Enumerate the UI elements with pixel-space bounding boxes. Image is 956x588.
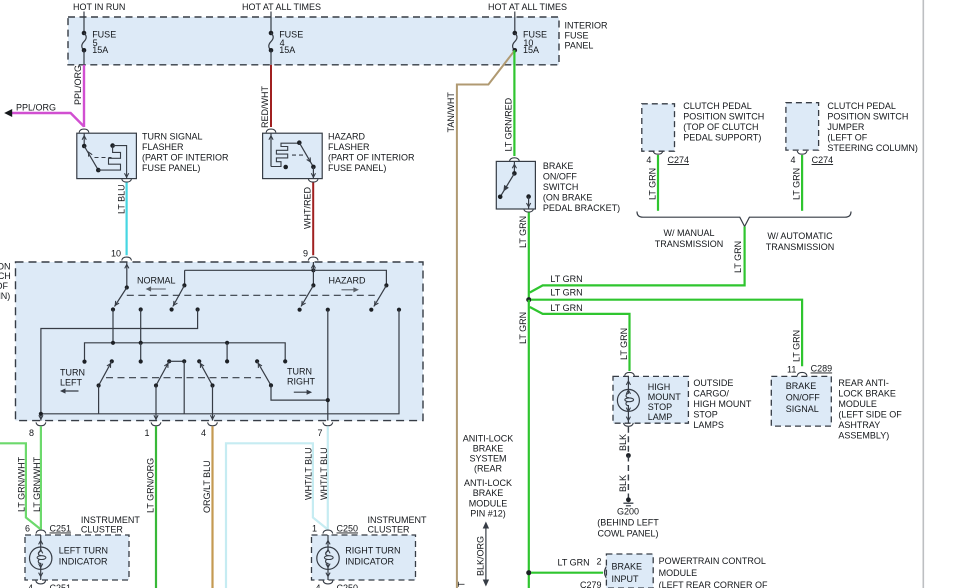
svg-text:LT GRN/WHT: LT GRN/WHT — [17, 456, 27, 512]
svg-text:ON: ON — [0, 262, 11, 272]
svg-text:ASSEMBLY): ASSEMBLY) — [838, 431, 889, 441]
label NORMAL with arrow — [137, 275, 176, 291]
fuse 5 15A — [82, 12, 117, 65]
label INSTRUMENT CLUSTER (left) — [81, 515, 140, 535]
pin 9 — [303, 249, 318, 261]
normal/hazard selector internals — [41, 262, 401, 421]
svg-text:1: 1 — [144, 428, 149, 438]
connector C251 pin 4 (bottom) — [28, 581, 71, 588]
svg-text:BRAKE: BRAKE — [612, 562, 643, 572]
svg-text:LT GRN/RED: LT GRN/RED — [504, 97, 514, 151]
svg-text:LT GRN: LT GRN — [792, 168, 802, 200]
svg-text:BRAKE: BRAKE — [543, 161, 574, 171]
label LT GRN/RED — [504, 97, 514, 151]
wire LT GRN clutch jumper — [801, 155, 803, 211]
svg-text:TRANSMISSION: TRANSMISSION — [766, 242, 835, 252]
connector C250 pin 1 — [312, 524, 358, 534]
label TAN/WHT — [446, 92, 456, 133]
svg-text:INDICATOR: INDICATOR — [345, 557, 394, 567]
label TURN SIGNAL FLASHER — [142, 132, 229, 174]
svg-text:RIGHT TURN: RIGHT TURN — [345, 546, 400, 556]
junction dot pin8 rail — [39, 412, 43, 420]
label TURN LEFT with arrow — [60, 367, 85, 393]
svg-text:ANTI-LOCK: ANTI-LOCK — [464, 478, 512, 488]
svg-text:10: 10 — [111, 249, 121, 259]
left turn indicator — [25, 535, 129, 580]
svg-text:11: 11 — [787, 365, 796, 375]
svg-text:PPL/ORG: PPL/ORG — [73, 65, 83, 105]
ground G200 — [617, 503, 639, 516]
svg-text:CARGO/: CARGO/ — [693, 389, 729, 399]
label HAZARD FLASHER — [328, 132, 415, 174]
svg-text:9: 9 — [303, 249, 308, 259]
svg-text:HOT AT ALL TIMES: HOT AT ALL TIMES — [488, 2, 567, 12]
label RIGHT TURN INDICATOR — [345, 546, 400, 567]
label WHT/LT BLU (branch) — [304, 447, 314, 500]
svg-text:LT GRN: LT GRN — [550, 274, 582, 284]
svg-text:CLUSTER: CLUSTER — [81, 525, 124, 535]
svg-text:JUMPER: JUMPER — [827, 122, 865, 132]
wire LT GRN clutch switch — [657, 155, 659, 211]
turn-right switch blades — [197, 359, 330, 420]
svg-text:LT GRN: LT GRN — [792, 330, 802, 362]
svg-text:LT GRN: LT GRN — [518, 312, 528, 344]
label LT GRN (signal branch) — [550, 288, 801, 362]
label LT GRN (main down) — [518, 312, 528, 344]
svg-text:PANEL: PANEL — [565, 41, 594, 51]
svg-text:HAZARD: HAZARD — [329, 275, 367, 285]
svg-text:8: 8 — [29, 428, 34, 438]
splice LT GRN to PCM — [526, 570, 531, 575]
svg-text:POSITION SWITCH: POSITION SWITCH — [827, 112, 908, 122]
connector C274 pin 4 (jumper) — [791, 151, 834, 165]
mechanical link (lower) — [106, 377, 261, 379]
wire ORG/LT BLU pin 4 — [211, 426, 213, 588]
svg-text:ASHTRAY: ASHTRAY — [838, 420, 880, 430]
hazard flasher — [263, 129, 323, 179]
pin 10 — [111, 249, 132, 261]
svg-text:(LEFT SIDE OF: (LEFT SIDE OF — [838, 410, 902, 420]
svg-text:WHT/LT BLU: WHT/LT BLU — [304, 447, 314, 500]
label ANTI-LOCK BRAKE SYSTEM block — [463, 434, 514, 519]
wire WHT/LT BLU pin 7 to C250 — [327, 426, 329, 529]
svg-text:MODULE: MODULE — [838, 399, 877, 409]
node HOT IN RUN — [73, 2, 125, 12]
label PPL/ORG vertical — [73, 65, 83, 105]
pin 7 — [317, 422, 332, 438]
label fragment T — [457, 581, 467, 587]
svg-text:BLK/ORG: BLK/ORG — [476, 536, 486, 576]
svg-text:W/ AUTOMATIC: W/ AUTOMATIC — [767, 231, 833, 241]
high mount stop lamp — [613, 372, 688, 423]
node HOT AT ALL TIMES (fuse 10) — [488, 2, 567, 12]
svg-text:LT GRN: LT GRN — [558, 558, 590, 568]
svg-text:(LEFT REAR CORNER OF: (LEFT REAR CORNER OF — [659, 580, 768, 588]
svg-text:(REAR: (REAR — [474, 464, 503, 474]
wire LT GRN to brake input — [531, 572, 603, 574]
page edge line — [922, 0, 924, 588]
wire LT GRN/ORG pin 1 — [155, 426, 157, 588]
svg-text:15A: 15A — [279, 45, 295, 55]
fuse 10 15A — [513, 12, 548, 65]
svg-text:POSITION SWITCH: POSITION SWITCH — [683, 112, 764, 122]
svg-text:C251: C251 — [50, 583, 72, 588]
pin 1 — [144, 422, 160, 438]
svg-text:OF: OF — [0, 281, 9, 291]
svg-text:FLASHER: FLASHER — [142, 142, 184, 152]
label WHT/RED — [303, 187, 313, 229]
svg-text:INSTRUMENT: INSTRUMENT — [81, 515, 140, 525]
wire LT GRN bracket to junction — [530, 227, 745, 293]
svg-text:HOT IN RUN: HOT IN RUN — [73, 2, 125, 12]
label LT GRN 2 C279 — [558, 557, 602, 588]
svg-text:LEFT: LEFT — [60, 377, 83, 387]
svg-text:4: 4 — [646, 155, 651, 165]
label W/ AUTOMATIC TRANSMISSION — [766, 231, 835, 252]
svg-text:SYSTEM: SYSTEM — [469, 454, 506, 464]
wire BLK/ORG double arrow — [483, 522, 489, 587]
label W/ MANUAL TRANSMISSION — [655, 228, 724, 249]
wire PPL/ORG from fuse 5 — [4, 65, 84, 127]
svg-text:HIGH: HIGH — [648, 382, 671, 392]
fuse 4 15A — [269, 12, 304, 65]
svg-text:TURN: TURN — [60, 367, 85, 377]
svg-text:G200: G200 — [617, 507, 639, 517]
wire TAN/WHT from fuse 10 — [457, 50, 515, 588]
wire WHT/RED — [308, 179, 318, 256]
svg-text:(TOP OF CLUTCH: (TOP OF CLUTCH — [683, 122, 758, 132]
svg-text:WHT/RED: WHT/RED — [303, 187, 313, 229]
svg-text:FLASHER: FLASHER — [328, 142, 370, 152]
label BLK/ORG — [476, 536, 486, 576]
svg-text:LT GRN/ORG: LT GRN/ORG — [146, 458, 156, 513]
label LT GRN/WHT (pin 8) — [32, 456, 42, 512]
svg-text:FUSE PANEL): FUSE PANEL) — [142, 163, 200, 173]
svg-text:TURN SIGNAL: TURN SIGNAL — [142, 132, 203, 142]
svg-text:LAMP: LAMP — [648, 412, 673, 422]
svg-text:ON/OFF: ON/OFF — [786, 393, 820, 403]
svg-text:RED/WHT: RED/WHT — [260, 86, 270, 128]
svg-text:PIN #12): PIN #12) — [470, 509, 506, 519]
label multifunction switch (clipped) — [0, 262, 11, 302]
svg-text:CLUSTER: CLUSTER — [368, 525, 411, 535]
label LT GRN (lamp branch) — [550, 303, 629, 360]
svg-text:4: 4 — [201, 428, 206, 438]
svg-text:WHT/LT BLU: WHT/LT BLU — [319, 447, 329, 500]
svg-text:C279: C279 — [580, 580, 602, 588]
label BLK (upper) — [618, 434, 628, 451]
label INTERIOR FUSE PANEL — [565, 21, 609, 51]
svg-text:INTERIOR: INTERIOR — [565, 21, 609, 31]
svg-text:COWL PANEL): COWL PANEL) — [597, 529, 658, 539]
svg-text:PPL/ORG: PPL/ORG — [16, 103, 56, 113]
svg-text:TAN/WHT: TAN/WHT — [446, 92, 456, 133]
svg-text:MODULE: MODULE — [469, 499, 508, 509]
svg-text:NORMAL: NORMAL — [137, 275, 176, 285]
label HAZARD with arrow — [329, 275, 367, 292]
svg-text:15A: 15A — [523, 45, 539, 55]
svg-text:W/ MANUAL: W/ MANUAL — [663, 228, 714, 238]
svg-text:LT GRN: LT GRN — [619, 328, 629, 360]
label RED/WHT — [260, 86, 270, 128]
svg-text:BRAKE: BRAKE — [473, 488, 504, 498]
wire LT GRN to brake on/off signal — [531, 300, 802, 367]
svg-text:C250: C250 — [337, 524, 359, 534]
svg-text:C250: C250 — [337, 583, 359, 588]
svg-text:STOP: STOP — [648, 402, 672, 412]
connector C250 pin 4 (bottom) — [315, 581, 358, 588]
svg-text:INSTRUMENT: INSTRUMENT — [368, 515, 427, 525]
svg-text:HIGH MOUNT: HIGH MOUNT — [693, 399, 751, 409]
contact bus and lower contacts — [82, 341, 287, 364]
svg-text:6: 6 — [25, 524, 30, 534]
wire WHT/LT BLU branch — [226, 443, 327, 588]
svg-text:POWERTRAIN CONTROL: POWERTRAIN CONTROL — [659, 556, 766, 566]
svg-text:BRAKE: BRAKE — [786, 381, 817, 391]
label LT BLU — [117, 184, 127, 214]
label POWERTRAIN CONTROL MODULE — [659, 556, 768, 588]
connector C251 pin 6 — [25, 524, 71, 534]
clutch pedal position switch — [642, 104, 675, 151]
svg-text:CH: CH — [0, 271, 11, 281]
svg-text:4: 4 — [791, 155, 796, 165]
svg-text:RIGHT: RIGHT — [287, 376, 316, 386]
label WHT/LT BLU (pin 7) — [319, 447, 329, 500]
pin 4 — [201, 422, 217, 438]
svg-text:BLK: BLK — [618, 434, 628, 451]
svg-text:MN): MN) — [0, 291, 10, 301]
label ORG/LT BLU — [202, 460, 212, 513]
interior fuse panel box — [68, 17, 559, 65]
wire LT GRN brake switch to junction — [524, 209, 534, 300]
label LT GRN (clutch jumper) — [792, 168, 802, 200]
svg-text:BLK: BLK — [618, 475, 628, 492]
svg-text:LEFT TURN: LEFT TURN — [59, 546, 108, 556]
svg-text:(BEHIND LEFT: (BEHIND LEFT — [597, 518, 659, 528]
svg-text:LT GRN: LT GRN — [648, 168, 658, 200]
connector arc C279 — [605, 567, 607, 579]
svg-text:FUSE: FUSE — [565, 31, 589, 41]
label BRAKE ON/OFF SWITCH — [543, 161, 620, 213]
label CLUTCH PEDAL POSITION SWITCH JUMPER — [827, 101, 918, 153]
svg-text:15A: 15A — [92, 45, 108, 55]
label TURN RIGHT with arrow — [287, 366, 316, 395]
connector C274 pin 4 (switch) — [646, 151, 689, 165]
wire LT GRN/WHT pin 8 to C251 — [40, 426, 42, 529]
label PPL/ORG horizontal — [16, 103, 56, 113]
wire LT BLU — [122, 179, 132, 256]
label BEHIND LEFT COWL PANEL — [597, 518, 659, 539]
svg-text:OUTSIDE: OUTSIDE — [693, 378, 733, 388]
svg-text:LAMPS: LAMPS — [693, 420, 724, 430]
svg-text:(LEFT OF: (LEFT OF — [827, 133, 867, 143]
svg-text:STOP: STOP — [693, 410, 717, 420]
wire LT GRN/WHT branch from left — [0, 443, 40, 529]
powertrain control module brake input — [606, 554, 653, 588]
svg-text:PEDAL SUPPORT): PEDAL SUPPORT) — [683, 133, 761, 143]
svg-text:C289: C289 — [811, 364, 833, 374]
label REAR ANTI-LOCK BRAKE MODULE — [838, 378, 902, 441]
svg-text:MODULE: MODULE — [659, 568, 698, 578]
svg-text:2: 2 — [597, 557, 602, 567]
svg-text:INDICATOR: INDICATOR — [59, 557, 108, 567]
wire LT GRN/RED — [513, 50, 515, 156]
svg-text:(PART OF INTERIOR: (PART OF INTERIOR — [142, 153, 229, 163]
label BLK (lower) — [618, 475, 628, 492]
svg-text:T: T — [457, 581, 467, 587]
svg-text:1: 1 — [312, 524, 317, 534]
svg-text:C251: C251 — [50, 524, 72, 534]
svg-text:LT GRN: LT GRN — [550, 303, 582, 313]
svg-text:C274: C274 — [812, 155, 834, 165]
clutch pedal position switch jumper — [786, 103, 819, 150]
rear ABS module brake on/off signal — [771, 364, 832, 427]
right turn indicator — [312, 535, 416, 580]
multifunction switch box — [16, 262, 424, 421]
svg-text:4: 4 — [315, 583, 320, 588]
svg-text:LT BLU: LT BLU — [117, 184, 127, 214]
turn-left switch blades — [97, 359, 187, 420]
svg-text:(ON BRAKE: (ON BRAKE — [543, 193, 593, 203]
svg-text:7: 7 — [317, 428, 322, 438]
wire LT GRN junction to PCM splice — [528, 300, 530, 588]
svg-text:ANITI-LOCK: ANITI-LOCK — [463, 434, 514, 444]
svg-text:LT GRN: LT GRN — [733, 241, 743, 273]
label LEFT TURN INDICATOR — [59, 546, 108, 567]
label LT GRN (bracket branch) — [550, 241, 743, 284]
node HOT AT ALL TIMES (fuse 4) — [242, 2, 321, 12]
svg-text:(PART OF INTERIOR: (PART OF INTERIOR — [328, 153, 415, 163]
wire BLK to ground — [624, 423, 634, 502]
svg-text:TRANSMISSION: TRANSMISSION — [655, 239, 724, 249]
label LT GRN (clutch switch) — [648, 168, 658, 200]
svg-text:LT GRN: LT GRN — [518, 216, 528, 248]
svg-text:SWITCH: SWITCH — [543, 182, 579, 192]
label LT GRN — [518, 216, 528, 248]
svg-text:REAR ANTI-: REAR ANTI- — [838, 378, 889, 388]
label LT GRN/WHT (branch) — [17, 456, 27, 512]
svg-text:LT GRN/WHT: LT GRN/WHT — [32, 456, 42, 512]
svg-text:STEERING COLUMN): STEERING COLUMN) — [827, 143, 918, 153]
label LT GRN/ORG — [146, 458, 156, 513]
svg-text:4: 4 — [28, 583, 33, 588]
svg-text:TURN: TURN — [287, 366, 312, 376]
wire LT GRN to high mount lamp — [530, 307, 630, 371]
svg-text:ORG/LT BLU: ORG/LT BLU — [202, 460, 212, 513]
svg-text:HAZARD: HAZARD — [328, 132, 366, 142]
label CLUTCH PEDAL POSITION SWITCH — [683, 101, 764, 143]
svg-text:C274: C274 — [668, 155, 690, 165]
label OUTSIDE CARGO / HIGH MOUNT STOP LAMPS — [693, 378, 751, 430]
transmission bracket — [637, 212, 851, 227]
svg-text:HOT AT ALL TIMES: HOT AT ALL TIMES — [242, 2, 321, 12]
junction splice LT GRN — [526, 297, 531, 302]
svg-text:ON/OFF: ON/OFF — [543, 172, 577, 182]
turn signal flasher — [77, 129, 137, 179]
svg-text:CLUTCH PEDAL: CLUTCH PEDAL — [827, 101, 896, 111]
svg-text:MOUNT: MOUNT — [648, 392, 681, 402]
svg-text:SIGNAL: SIGNAL — [786, 404, 819, 414]
svg-text:FUSE PANEL): FUSE PANEL) — [328, 163, 386, 173]
label HIGH MOUNT STOP LAMP (inside) — [648, 382, 681, 422]
svg-text:BRAKE: BRAKE — [473, 444, 504, 454]
svg-text:LOCK BRAKE: LOCK BRAKE — [838, 389, 896, 399]
pin 8 — [29, 422, 46, 438]
wire RED/WHT from fuse 4 — [270, 65, 272, 127]
svg-text:INPUT: INPUT — [612, 574, 640, 584]
svg-text:LT GRN: LT GRN — [550, 288, 582, 298]
brake on/off switch — [496, 158, 535, 209]
label INSTRUMENT CLUSTER (right) — [368, 515, 427, 535]
svg-text:PEDAL BRACKET): PEDAL BRACKET) — [543, 203, 620, 213]
svg-text:CLUTCH PEDAL: CLUTCH PEDAL — [683, 101, 752, 111]
